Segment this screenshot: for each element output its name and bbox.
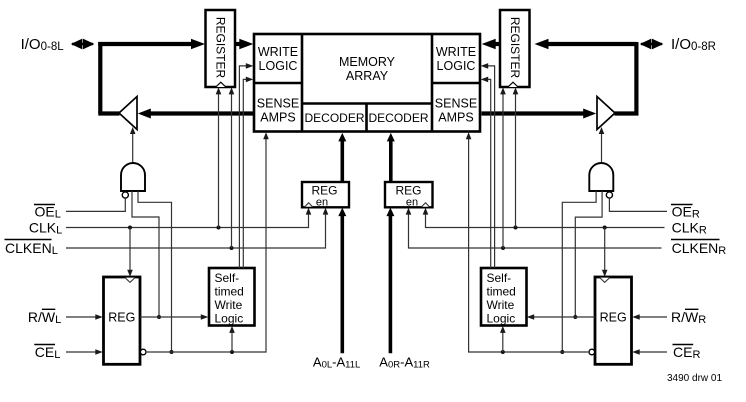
wire self-timed L to write logic upper	[239, 63, 253, 268]
svg-text:CLKENL: CLKENL	[5, 240, 58, 257]
svg-text:REG: REG	[108, 311, 135, 325]
memory array outer box	[254, 34, 480, 132]
arrowhead CE into sense amps R	[466, 132, 472, 139]
write logic L / sense amps L partition	[301, 34, 304, 132]
I/O L bus wire to register	[98, 39, 205, 50]
register R box	[500, 10, 530, 87]
svg-text:Logic: Logic	[215, 312, 244, 326]
output buffer R (tri-state, points right)	[597, 97, 615, 130]
address REG-en L box	[302, 182, 349, 209]
junction dot CE to self-timed R	[501, 350, 505, 354]
junction dot CLKR to REG R	[603, 226, 607, 230]
buffer L enable wire from AND gate	[130, 127, 136, 163]
REG L box	[104, 277, 141, 364]
svg-text:REGISTER: REGISTER	[508, 17, 522, 79]
svg-text:SENSE: SENSE	[257, 97, 299, 111]
label CER	[673, 344, 701, 361]
svg-text:Write: Write	[487, 298, 515, 312]
label OEL	[34, 204, 61, 221]
svg-text:SENSE: SENSE	[435, 97, 477, 111]
junction dot C-L	[170, 350, 174, 354]
wire REG R CE out	[469, 138, 589, 353]
wire CLKR up to REGISTER R clock	[513, 87, 519, 227]
sense amps R text	[435, 97, 477, 125]
svg-text:en: en	[316, 197, 328, 209]
wire AND R input B from R/W line R	[575, 191, 602, 317]
svg-text:Write: Write	[215, 298, 243, 312]
wire OEL to bubble	[66, 198, 125, 211]
wire self-timed R to write logic R lower	[481, 77, 491, 268]
svg-text:WRITE: WRITE	[436, 45, 476, 59]
decoder divider	[365, 104, 368, 132]
wire CE up to self-timed L	[229, 326, 235, 352]
label CLKENL	[5, 240, 58, 258]
I/O R bus wire from register	[535, 39, 637, 50]
svg-text:AMPS: AMPS	[438, 111, 473, 125]
junction dot CLKENL to REGISTER	[230, 246, 234, 250]
svg-text:LOGIC: LOGIC	[437, 59, 476, 73]
label CEL	[34, 344, 60, 361]
AND gate R (output up)	[589, 163, 613, 191]
wire AND R input C from CE line R	[562, 191, 596, 352]
wire REG L CE out	[146, 138, 266, 353]
wire CLKR	[423, 208, 665, 228]
write logic L text	[258, 45, 298, 73]
svg-text:AMPS: AMPS	[260, 111, 295, 125]
wire self-timed L to write logic lower	[243, 77, 253, 268]
memory array bottom line	[302, 102, 432, 105]
REG R CE output bubble	[589, 349, 595, 355]
svg-text:Logic: Logic	[487, 312, 516, 326]
wire CLKR down to REG R clock	[602, 228, 608, 277]
I/O R double arrow	[640, 39, 664, 50]
wire AND L input B from R/W line	[132, 191, 159, 317]
AND gate L bubble input (OE)	[122, 192, 128, 198]
sense amps L bus to buffer	[138, 109, 254, 119]
wire REG R R/W out to self-timed logic R	[527, 314, 595, 320]
junction dot CE to self-timed L	[230, 350, 234, 354]
wire CLKL up to REGISTER L clock	[216, 87, 222, 227]
svg-text:ARRAY: ARRAY	[346, 69, 389, 83]
wire CEL into REG L	[66, 349, 103, 355]
I/O R bus wire to buffer tip	[615, 111, 639, 115]
wire AND L input C from CE line	[138, 191, 172, 352]
label R/WL	[28, 309, 61, 326]
svg-text:REG: REG	[395, 184, 421, 198]
svg-text:3490 drw 01: 3490 drw 01	[667, 373, 722, 384]
svg-text:WRITE: WRITE	[258, 45, 298, 59]
junction dot B-R	[573, 315, 577, 319]
write logic R text	[436, 45, 476, 73]
self-timed write logic L box	[209, 268, 255, 326]
wire CLKENR up to REGISTER R enable	[500, 87, 506, 248]
svg-text:REGISTER: REGISTER	[214, 17, 228, 79]
sense amps R bus to buffer R	[482, 109, 597, 119]
junction dot B-L	[157, 315, 161, 319]
AND gate R bubble input (OE)	[606, 192, 612, 198]
buffer R enable wire from AND gate R	[599, 127, 605, 163]
wire R/WR into REG R	[632, 314, 667, 320]
I/O L double arrow	[71, 39, 95, 50]
wire register R to write logic R	[482, 39, 499, 50]
svg-text:LOGIC: LOGIC	[259, 59, 298, 73]
junction dot CLKL to REGISTER	[217, 226, 221, 230]
wire CER into REG R	[632, 349, 667, 355]
wire CLKL	[66, 208, 311, 228]
wire register L to write logic	[235, 39, 253, 50]
junction dot CLKR to REGISTER R	[514, 226, 518, 230]
svg-text:timed: timed	[487, 285, 516, 299]
wire CE up to self-timed R	[500, 326, 506, 352]
label OER	[671, 204, 700, 221]
label R/WR	[671, 309, 706, 326]
junction dot CLKENR to REGISTER R	[501, 246, 505, 250]
wire REG-en R to decoder R	[387, 133, 395, 181]
wire CLKL down to REG L clock	[127, 228, 133, 277]
svg-text:en: en	[406, 197, 418, 209]
svg-text:DECODER: DECODER	[304, 111, 364, 125]
sense amps L text	[257, 97, 299, 125]
svg-text:REG: REG	[311, 184, 337, 198]
wire R/WL into REG L	[66, 314, 103, 320]
wire REG L R/W out to self-timed logic	[140, 314, 208, 320]
svg-text:DECODER: DECODER	[368, 111, 428, 125]
address REG-en R box	[385, 182, 433, 209]
arrowhead CE into sense amps L	[263, 132, 269, 139]
label CLKENR	[671, 240, 726, 258]
output buffer L (tri-state, points left)	[119, 97, 137, 130]
wire OER to bubble R	[609, 198, 667, 211]
wire CLKENL	[66, 208, 328, 248]
svg-text:timed: timed	[215, 285, 244, 299]
wire CLKENL up to REGISTER L enable	[229, 87, 235, 248]
I/O L bus wire to buffer tip	[98, 111, 119, 115]
I/O L bus vertical drop	[98, 42, 102, 114]
junction dot CLKL to REG	[128, 226, 132, 230]
register L box	[206, 10, 236, 87]
self-timed write logic R box	[481, 268, 527, 326]
REG L CE output bubble	[140, 349, 146, 355]
address input A0R-A11R arrow	[386, 208, 394, 354]
svg-text:Self-: Self-	[487, 271, 512, 285]
svg-text:CLKENR: CLKENR	[672, 240, 727, 257]
REG R box	[595, 277, 632, 364]
AND gate L (output up)	[121, 163, 145, 191]
wire self-timed R to write logic R upper	[481, 63, 495, 268]
wire CLKENR	[406, 208, 662, 248]
write logic R / sense amps R partition	[431, 34, 434, 132]
I/O R bus vertical drop	[634, 42, 638, 114]
memory array text	[339, 55, 396, 83]
svg-text:REG: REG	[600, 311, 627, 325]
svg-text:MEMORY: MEMORY	[339, 55, 396, 69]
wire REG-en L to decoder L	[338, 133, 346, 181]
address input A0L-A11L arrow	[338, 208, 346, 354]
svg-text:Self-: Self-	[215, 271, 240, 285]
junction dot C-R	[560, 350, 564, 354]
